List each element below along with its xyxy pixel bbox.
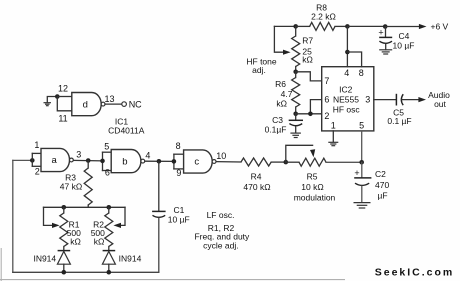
svg-text:IN914: IN914 <box>119 253 142 263</box>
node C4 tap <box>383 24 388 29</box>
nand gate IC1b <box>111 150 145 173</box>
R2 wiper arrow <box>113 223 121 228</box>
label freq duty <box>194 231 250 241</box>
svg-text:R4: R4 <box>251 171 262 181</box>
wire pin 4 supply <box>346 26 348 66</box>
svg-text:out: out <box>434 99 446 109</box>
wire a to b <box>73 159 102 162</box>
pin 9 label <box>176 168 181 178</box>
node gate a out <box>86 158 91 163</box>
wire audio out <box>402 99 418 101</box>
svg-text:6: 6 <box>105 168 110 178</box>
svg-text:+: + <box>354 168 359 178</box>
wire pin 8 bracket <box>347 52 361 67</box>
wire gate d input bracket <box>57 97 72 111</box>
wire pin 3 <box>374 99 396 101</box>
svg-text:modulation: modulation <box>294 192 336 202</box>
svg-text:R6: R6 <box>275 79 286 89</box>
node C1 tap <box>157 159 162 164</box>
label HF tone adj <box>246 56 277 75</box>
potentiometer R2 <box>91 207 113 250</box>
NC terminal <box>122 99 142 109</box>
wire top rail <box>274 25 295 27</box>
svg-text:R7: R7 <box>302 35 313 45</box>
svg-text:10: 10 <box>216 151 226 161</box>
svg-text:CD4011A: CD4011A <box>108 125 145 135</box>
pin 6 label <box>105 168 110 178</box>
svg-text:10 µF: 10 µF <box>393 40 415 50</box>
nand gate IC1c <box>184 150 216 173</box>
nand gate IC1a <box>41 148 73 171</box>
capacitor C3 <box>265 114 303 135</box>
R2 wiper bracket <box>120 207 125 225</box>
ground below C3 <box>290 133 301 137</box>
scan edge bottom <box>0 279 345 281</box>
svg-text:1: 1 <box>34 140 39 150</box>
wire pin 1 stub <box>332 131 334 142</box>
svg-text:b: b <box>122 156 127 167</box>
svg-text:C3: C3 <box>272 115 283 125</box>
node R6 bottom <box>293 112 298 117</box>
svg-text:HF osc: HF osc <box>333 104 361 114</box>
svg-text:9: 9 <box>176 168 181 178</box>
wire c out <box>216 161 241 163</box>
capacitor C5 <box>387 94 411 126</box>
node R7 bottom <box>293 70 298 75</box>
SeekIC.com watermark text <box>375 266 455 278</box>
svg-text:2.2 kΩ: 2.2 kΩ <box>311 12 336 22</box>
ground at gate d input <box>44 97 58 106</box>
svg-text:+: + <box>378 28 383 38</box>
svg-text:+6 V: +6 V <box>431 22 449 32</box>
svg-text:7: 7 <box>324 76 329 86</box>
svg-text:2: 2 <box>35 166 40 176</box>
label LF osc <box>207 210 235 220</box>
R7 wiper arrow <box>283 50 291 55</box>
wire NC <box>105 103 122 105</box>
node gate b input <box>100 159 105 164</box>
svg-text:C4: C4 <box>399 31 410 41</box>
node R1 top <box>62 205 67 210</box>
svg-text:10 µF: 10 µF <box>168 214 190 224</box>
svg-text:5: 5 <box>104 142 109 152</box>
capacitor C2 <box>354 162 389 202</box>
svg-text:d: d <box>83 99 88 110</box>
svg-text:kΩ: kΩ <box>70 237 81 247</box>
wire to +6V arrow <box>385 26 419 28</box>
R5 wiper <box>286 145 313 162</box>
svg-text:11: 11 <box>58 113 67 123</box>
R1 wiper arrow <box>52 223 60 228</box>
svg-text:c: c <box>194 157 199 168</box>
svg-text:0.1µF: 0.1µF <box>265 124 287 134</box>
capacitor C4 <box>378 27 414 51</box>
pin 11 label <box>58 113 67 123</box>
svg-text:NE555: NE555 <box>333 95 359 105</box>
svg-text:12: 12 <box>58 84 68 94</box>
svg-text:8: 8 <box>176 141 181 151</box>
svg-text:adj.: adj. <box>252 65 266 75</box>
wire pin 7 <box>296 72 322 81</box>
svg-text:5: 5 <box>359 121 364 131</box>
pin 3 label <box>76 150 81 160</box>
node pin 8 branch <box>345 50 350 55</box>
wire left bus <box>12 160 14 272</box>
wire pin 2 <box>296 113 322 115</box>
pin 13 label <box>104 94 114 104</box>
resistor R8 <box>296 3 348 31</box>
wire gate b bracket <box>103 152 112 170</box>
potentiometer R7 <box>292 26 314 71</box>
pin 1 label <box>34 140 39 150</box>
node pin5/C2 <box>359 160 364 165</box>
node D1 bottom <box>62 270 67 275</box>
wire gate c bracket <box>174 154 184 169</box>
wire +6V feed <box>347 25 385 27</box>
ground pin 1 <box>328 142 338 145</box>
svg-text:13: 13 <box>104 94 114 104</box>
potentiometer R1 <box>60 207 81 250</box>
node R4/R5 <box>284 160 289 165</box>
wire b to c <box>145 160 174 162</box>
wire R7 wiper bracket <box>274 26 284 52</box>
svg-text:47 kΩ: 47 kΩ <box>60 182 82 192</box>
svg-text:IN914: IN914 <box>33 253 56 263</box>
svg-text:kΩ: kΩ <box>94 237 105 247</box>
audio out arrow <box>418 90 450 109</box>
svg-text:3: 3 <box>365 95 370 105</box>
ground below C4 <box>379 50 392 54</box>
node gate d input <box>55 94 60 99</box>
wire pin 5 <box>361 131 363 162</box>
diode D2 1N914 <box>102 251 141 273</box>
svg-text:0.1 µF: 0.1 µF <box>387 116 411 126</box>
resistor R3 <box>60 161 92 208</box>
nand gate IC1d <box>72 93 105 116</box>
node gate a input <box>30 158 35 163</box>
svg-text:NC: NC <box>129 99 142 109</box>
svg-text:C2: C2 <box>375 169 386 179</box>
resistor R6 <box>275 72 300 114</box>
svg-text:kΩ: kΩ <box>302 54 313 64</box>
svg-text:R5: R5 <box>307 171 318 181</box>
pin 4 label <box>145 150 150 160</box>
R5 wiper arrow <box>310 149 315 157</box>
svg-text:2: 2 <box>324 111 329 121</box>
svg-text:4: 4 <box>145 150 150 160</box>
capacitor C1 <box>152 161 190 272</box>
wire left bus feed <box>13 159 33 161</box>
svg-text:1: 1 <box>331 121 336 131</box>
node R7 top <box>293 24 298 29</box>
label IC1 <box>115 117 129 127</box>
wire pot top rail <box>44 206 126 208</box>
svg-text:LF osc.: LF osc. <box>207 210 235 220</box>
node R2 top <box>107 205 112 210</box>
label cycle adj <box>203 241 238 251</box>
svg-text:8: 8 <box>359 68 364 78</box>
diode D1 1N914 <box>33 251 70 273</box>
node pin4/R8 <box>345 24 350 29</box>
wire gate a bracket <box>32 153 41 166</box>
svg-text:IC2: IC2 <box>339 85 353 95</box>
potentiometer R5 <box>286 158 362 202</box>
pin 10 label <box>216 151 226 161</box>
node pin6/pin2 <box>308 112 313 117</box>
svg-text:SeekIC.com: SeekIC.com <box>375 266 455 278</box>
pin 8 label <box>176 141 181 151</box>
svg-text:3: 3 <box>76 150 81 160</box>
svg-text:a: a <box>51 155 57 166</box>
pin 2 label <box>35 166 40 176</box>
label CD4011A <box>108 125 145 135</box>
pin 5 label <box>104 142 109 152</box>
svg-text:µF: µF <box>378 190 388 200</box>
svg-text:kΩ: kΩ <box>276 99 287 109</box>
+6V supply arrow <box>419 22 449 32</box>
svg-text:470 kΩ: 470 kΩ <box>243 182 270 192</box>
svg-text:470: 470 <box>375 180 389 190</box>
svg-text:4: 4 <box>344 68 349 78</box>
svg-text:6: 6 <box>324 95 329 105</box>
svg-text:10 kΩ: 10 kΩ <box>301 182 323 192</box>
node D2 bottom <box>107 270 112 275</box>
scan edge left <box>0 248 2 281</box>
pin 12 label <box>58 84 68 94</box>
ground below C2 <box>354 203 371 208</box>
label R1 R2 <box>208 223 235 233</box>
wire pin 6 bracket <box>310 100 321 114</box>
node gate c input <box>172 159 177 164</box>
R1 wiper bracket <box>44 207 54 225</box>
IC U2 NE555 (IC2) <box>322 67 374 131</box>
wire bottom rail <box>13 271 159 273</box>
svg-text:cycle adj.: cycle adj. <box>203 241 238 251</box>
resistor R4 <box>241 158 286 192</box>
